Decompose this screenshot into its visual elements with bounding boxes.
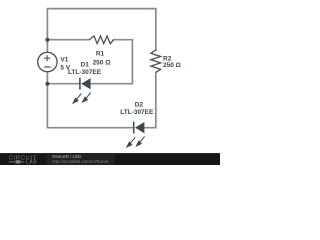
D1 cathode bar xyxy=(79,78,81,90)
resistor R1 xyxy=(89,36,113,44)
CircuitLab logo xyxy=(9,155,38,165)
node A junction dot xyxy=(45,38,49,42)
V1 plus terminal mark xyxy=(44,55,50,61)
D2 light emission arrows xyxy=(127,136,145,147)
svg-text:V1: V1 xyxy=(60,56,68,63)
node B junction dot xyxy=(45,82,49,86)
svg-text:R1: R1 xyxy=(96,51,105,58)
D1 light emission arrows xyxy=(73,93,91,104)
footer bar xyxy=(0,153,220,165)
D1 anode triangle xyxy=(81,78,90,89)
svg-text:LTL-307EE: LTL-307EE xyxy=(68,69,102,76)
svg-text:LAB: LAB xyxy=(26,160,37,165)
D2 cathode bar xyxy=(133,122,135,134)
wire: R1 right lead down to D1 anode xyxy=(91,40,133,84)
V1 minus terminal mark xyxy=(44,66,51,68)
D2 anode triangle xyxy=(135,122,144,133)
resistor R2 xyxy=(151,50,161,72)
LED D1 xyxy=(73,78,91,103)
svg-text:D2: D2 xyxy=(135,101,144,108)
svg-text:LTL-307EE: LTL-307EE xyxy=(120,109,154,116)
wire: node A to R1 left lead xyxy=(47,39,89,41)
svg-text:250 Ω: 250 Ω xyxy=(163,62,181,69)
wire: D2 anode up to R2 bottom xyxy=(144,72,156,127)
LED D2 xyxy=(127,122,145,147)
wire: node B to D1 cathode xyxy=(47,83,80,85)
wire: V1 bottom through node B down left rail, bottom rail to D2 cathode xyxy=(47,72,133,128)
V1 circle body xyxy=(38,52,57,71)
svg-text:250 Ω: 250 Ω xyxy=(93,60,111,67)
svg-text:http://circuitlab.com/c/75xkv5: http://circuitlab.com/c/75xkv5 xyxy=(52,159,109,164)
voltage source V1 xyxy=(38,52,57,71)
wire: V1 top up to node A, top rail, down right rail to R2 top xyxy=(47,9,155,53)
footer text xyxy=(52,154,109,164)
svg-text:D1: D1 xyxy=(81,61,90,68)
